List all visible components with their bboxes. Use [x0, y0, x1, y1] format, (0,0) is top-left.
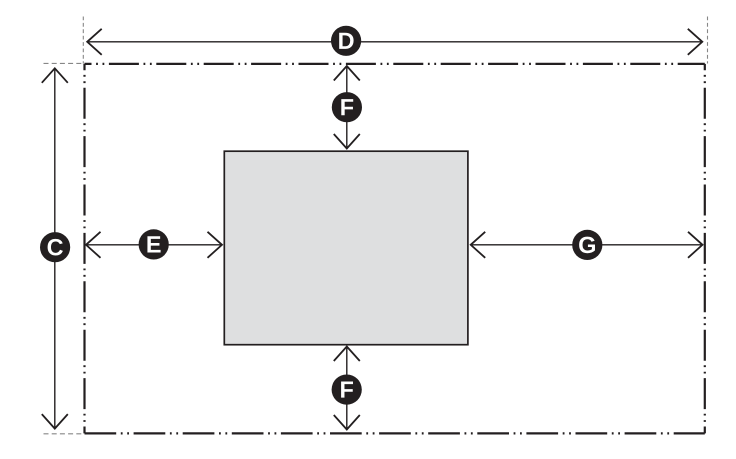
label F-bottom badge [332, 375, 362, 405]
dimension F-top shaft [346, 66, 348, 149]
label G badge [572, 230, 602, 260]
phantom border bottom [85, 432, 705, 434]
label G letter [579, 237, 595, 254]
label C badge [40, 232, 70, 262]
dimension E right arrowhead [208, 232, 223, 258]
dimension C top arrowhead [42, 68, 68, 83]
dimension G right arrowhead [688, 232, 703, 258]
label E badge [139, 229, 169, 259]
dimension D right arrowhead [688, 29, 703, 55]
phantom border left [83, 64, 85, 434]
extension line top horizontal (for C) [44, 62, 86, 64]
extension line left vertical (for D) [82, 17, 84, 64]
dimension G shaft [471, 244, 703, 246]
phantom border right [704, 64, 706, 434]
label E letter [147, 236, 160, 252]
label D badge [331, 26, 361, 56]
label F-top badge [332, 92, 362, 122]
extension line right vertical (for D) [707, 17, 709, 64]
dimension F-bottom upper arrowhead [334, 347, 360, 362]
dimension C shaft [54, 68, 56, 428]
dimension F-bottom shaft [346, 347, 348, 430]
label F-bottom letter [341, 382, 353, 398]
extension line bottom horizontal (for C) [44, 433, 86, 435]
dimension E shaft [86, 244, 222, 246]
dimension D left arrowhead [87, 29, 102, 55]
dimension F-bottom lower arrowhead [334, 415, 360, 430]
dimension C bottom arrowhead [42, 414, 68, 429]
dimension E left arrowhead [86, 232, 101, 258]
label F-top letter [341, 99, 353, 115]
gray panel box [224, 151, 468, 345]
label C letter [48, 239, 63, 256]
dimension G left arrowhead [471, 232, 486, 258]
dimension D shaft [87, 41, 702, 43]
label D letter [339, 33, 353, 49]
dimension F-top lower arrowhead [334, 134, 360, 149]
phantom border top [85, 63, 705, 65]
dimension F-top upper arrowhead [334, 66, 360, 81]
